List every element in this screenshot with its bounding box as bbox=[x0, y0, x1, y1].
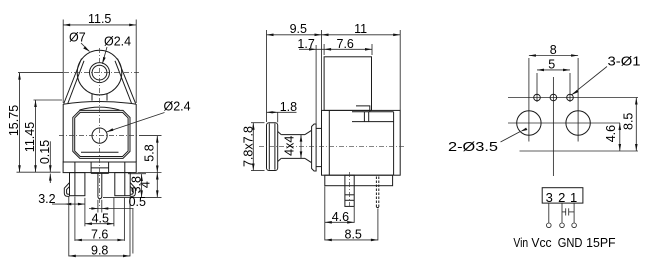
svg-text:1.8: 1.8 bbox=[280, 100, 297, 114]
svg-text:2-Ø3.5: 2-Ø3.5 bbox=[448, 140, 498, 154]
svg-text:8: 8 bbox=[550, 43, 557, 57]
svg-text:9.8: 9.8 bbox=[91, 244, 108, 258]
svg-text:Ø7: Ø7 bbox=[69, 31, 86, 45]
svg-text:1.7: 1.7 bbox=[297, 37, 314, 51]
svg-text:Ø2.4: Ø2.4 bbox=[164, 100, 191, 114]
svg-text:7.6: 7.6 bbox=[337, 37, 354, 51]
svg-text:3.8: 3.8 bbox=[130, 176, 144, 193]
svg-text:15PF: 15PF bbox=[586, 235, 616, 250]
svg-text:9.5: 9.5 bbox=[290, 22, 307, 36]
svg-text:3-Ø1: 3-Ø1 bbox=[608, 55, 641, 69]
svg-text:Vin: Vin bbox=[513, 235, 528, 250]
svg-text:GND: GND bbox=[558, 235, 583, 250]
svg-text:1: 1 bbox=[570, 190, 577, 205]
svg-text:3: 3 bbox=[546, 190, 553, 205]
svg-text:11.5: 11.5 bbox=[88, 12, 111, 26]
svg-text:4.5: 4.5 bbox=[92, 211, 109, 225]
svg-text:0.15: 0.15 bbox=[38, 140, 52, 164]
svg-text:3.2: 3.2 bbox=[38, 192, 55, 206]
svg-text:4.6: 4.6 bbox=[332, 210, 349, 224]
svg-text:7.6: 7.6 bbox=[91, 228, 108, 242]
svg-text:15.75: 15.75 bbox=[7, 105, 21, 136]
svg-text:11.45: 11.45 bbox=[23, 122, 37, 152]
svg-text:4x4: 4x4 bbox=[283, 136, 297, 156]
svg-text:8.5: 8.5 bbox=[345, 227, 362, 241]
svg-text:2: 2 bbox=[558, 190, 565, 205]
svg-text:5: 5 bbox=[548, 58, 555, 72]
svg-text:4.6: 4.6 bbox=[604, 125, 618, 142]
svg-text:7.8x7.8: 7.8x7.8 bbox=[241, 126, 255, 167]
svg-text:8.5: 8.5 bbox=[622, 113, 636, 130]
svg-text:Ø2.4: Ø2.4 bbox=[104, 35, 131, 49]
svg-text:5.8: 5.8 bbox=[142, 144, 156, 161]
svg-text:11: 11 bbox=[354, 22, 367, 36]
svg-text:0.5: 0.5 bbox=[129, 195, 146, 209]
svg-text:Vcc: Vcc bbox=[531, 235, 552, 250]
